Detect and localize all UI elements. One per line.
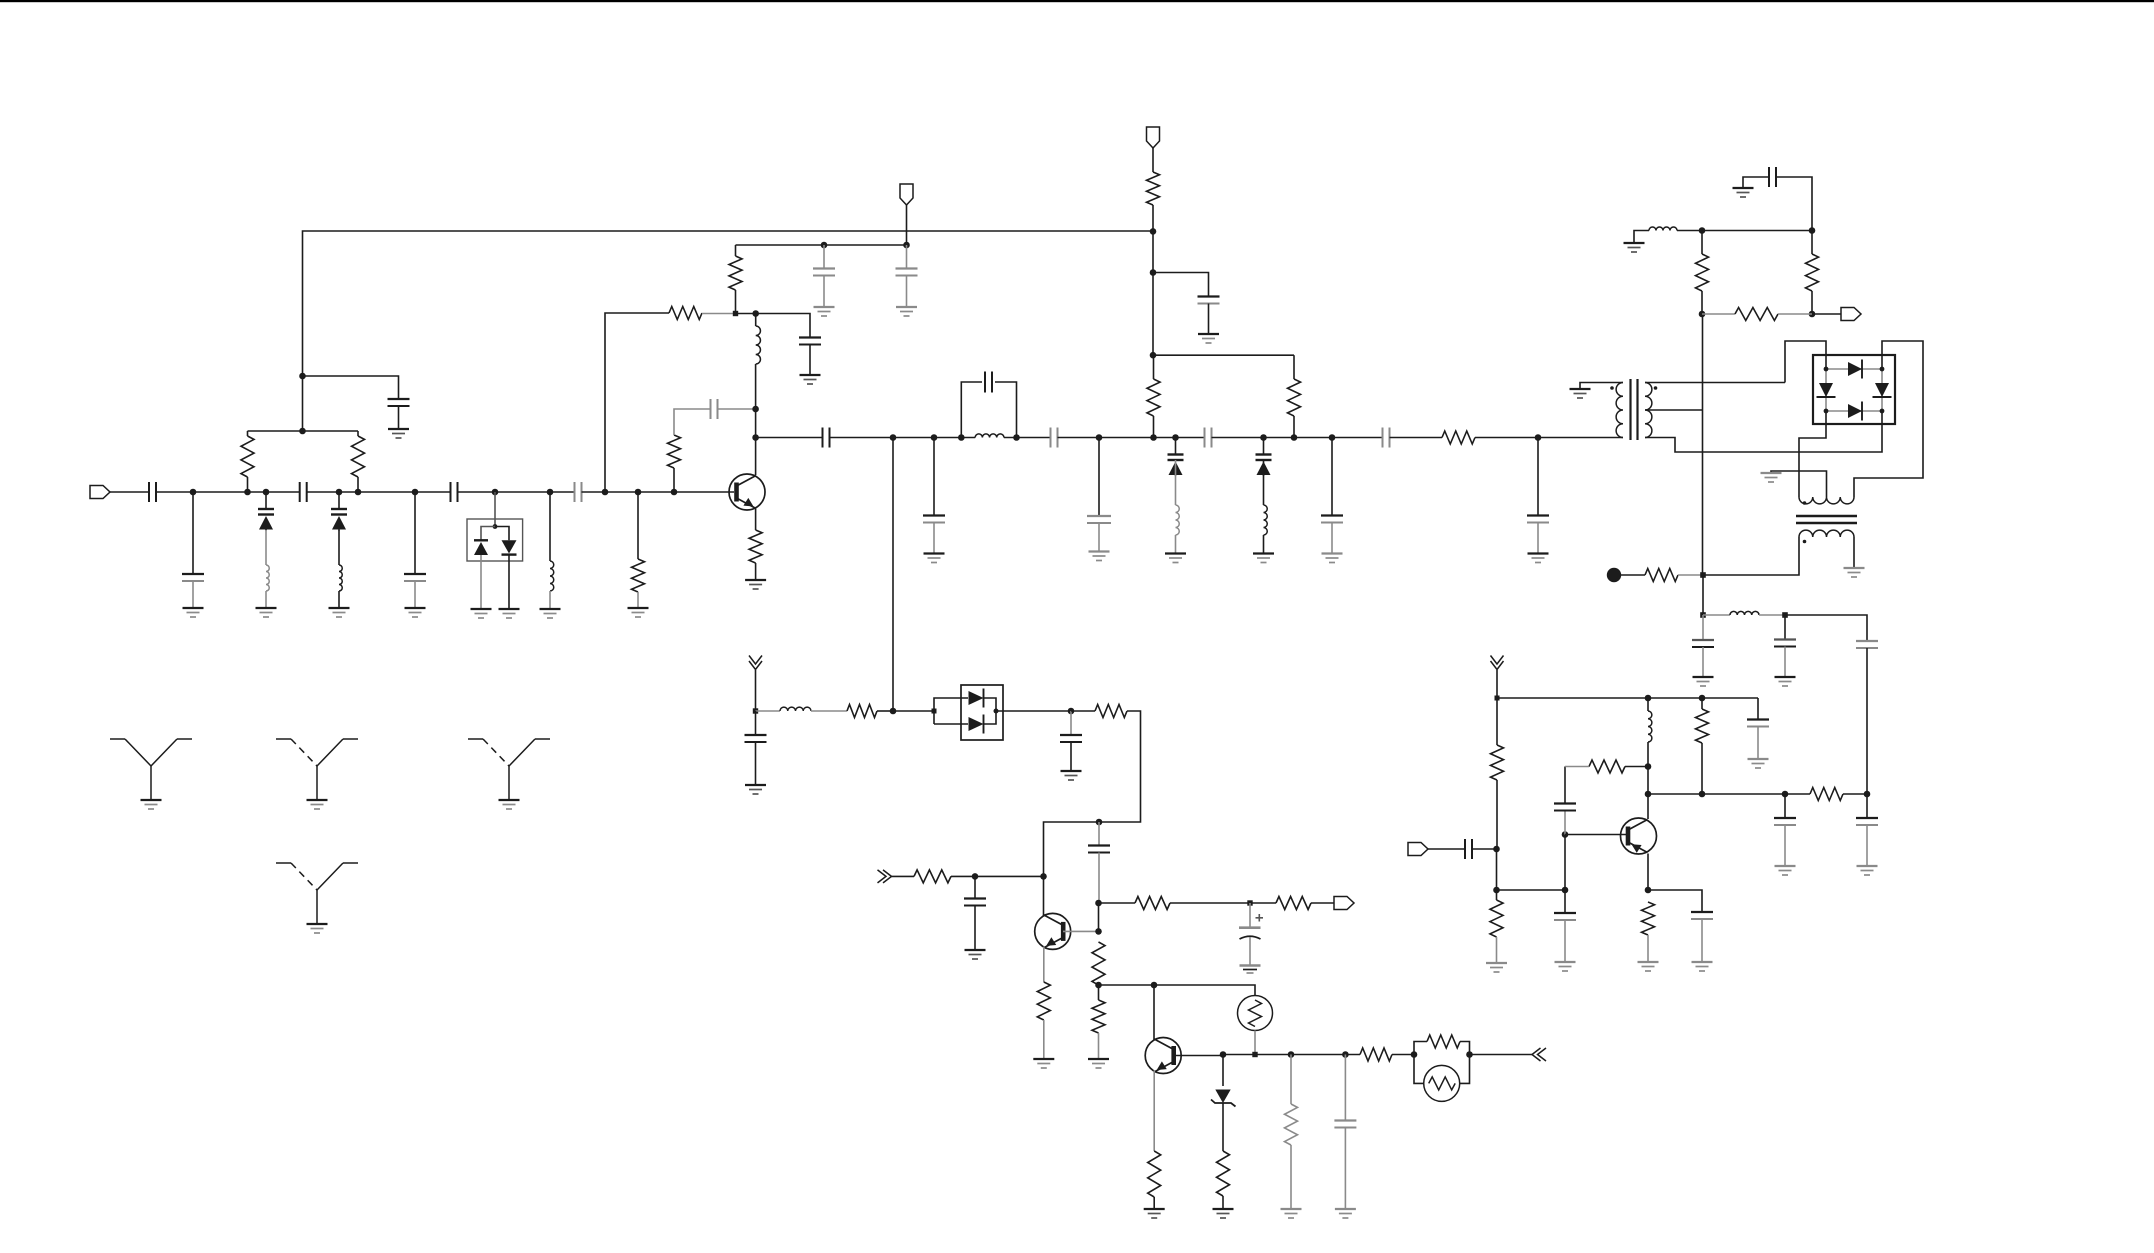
node C10: [1329, 434, 1336, 441]
wire box left branch: [481, 527, 495, 541]
wire C22 to ground: [755, 742, 757, 785]
node B8: [1150, 269, 1157, 276]
capacitor C9 shunt: [799, 338, 821, 345]
wire R21 to ground: [1222, 1196, 1224, 1209]
node C2: [931, 434, 938, 441]
wire J2 to L11: [1647, 698, 1649, 711]
ground at C28: [1733, 188, 1754, 197]
node J1: [1495, 696, 1500, 701]
wire R17 to port: [1311, 902, 1334, 904]
inductor L11: [1648, 711, 1652, 742]
wire to offpage: [1470, 1054, 1533, 1056]
wire bridge left arm: [1825, 369, 1827, 411]
node D6 cap tap: [1096, 819, 1103, 826]
wire R5 top to C8: [674, 409, 711, 435]
node C4 tank right: [1013, 434, 1020, 441]
bridge node TR: [1880, 367, 1885, 372]
wire R33 to J12: [1843, 793, 1867, 795]
bridge diode D10: [1817, 383, 1836, 397]
wire C25 to ground: [974, 906, 976, 951]
wire R14 to Q2 collector node: [951, 875, 1044, 877]
ground at T2 sec: [1844, 568, 1865, 577]
ground at C10: [814, 307, 835, 316]
resistor R17: [1276, 897, 1311, 910]
wire B5 to C10: [823, 245, 825, 269]
wire feedback vertical: [605, 313, 669, 492]
node inside diode box: [493, 524, 498, 529]
wire H3 right: [1785, 615, 1867, 641]
node D4 box output: [994, 709, 999, 714]
wire box right branch: [495, 527, 509, 541]
ground at D4: [499, 609, 520, 618]
node F4: [1288, 1051, 1295, 1058]
wire R3 to node B1: [702, 313, 736, 315]
wire bus to T1: [1538, 437, 1623, 439]
wire B8 to C12: [1153, 273, 1209, 297]
capacitor C5 shunt: [404, 574, 426, 581]
wire C8 to collector node: [718, 408, 756, 410]
wire bias rail y355: [1153, 354, 1294, 356]
wire box output: [996, 710, 1071, 712]
node J8 Q4 collector top: [1645, 763, 1652, 770]
resistor R27: [1735, 308, 1778, 321]
wire J5 to R30: [1496, 890, 1498, 900]
node J6: [1562, 887, 1569, 894]
node H3: [1782, 612, 1788, 618]
varactor diode D6: [1256, 438, 1272, 477]
offpage connector video in: [1491, 656, 1504, 670]
ground at C37: [1857, 866, 1878, 875]
node A3 on bias rail: [299, 428, 306, 435]
wire C21 to ground: [1537, 523, 1539, 554]
wire E5 to C26: [1249, 903, 1251, 928]
input port P1: [90, 486, 110, 499]
ground at C5: [405, 608, 426, 617]
node B2 collector-C8: [752, 406, 759, 413]
wire Q4 emitter: [1647, 854, 1649, 891]
capacitor C6 series: [451, 482, 458, 502]
ground at L2: [329, 608, 350, 617]
bridge diode D11: [1873, 383, 1892, 397]
wire C30 to ground: [1784, 647, 1786, 678]
wire R8 to AGC node: [1152, 205, 1154, 231]
wire bridge TR out: [1854, 341, 1923, 497]
wire rail G1-G2: [1702, 230, 1812, 232]
resistor R31: [1589, 760, 1625, 773]
wire AGC line vertical and top: [303, 231, 1154, 376]
AGC output port P4: [1334, 897, 1354, 910]
wire T1 primary top lead: [1580, 383, 1623, 390]
wire tank right: [995, 382, 1017, 438]
wire L9 left lead: [1634, 231, 1649, 244]
resistor R5: [668, 435, 681, 468]
resistor R10: [1288, 379, 1301, 416]
capacitor C21 shunt: [1527, 516, 1549, 523]
wire C28 left lead: [1743, 177, 1769, 188]
ground at C11: [896, 307, 917, 316]
offpage connector comp out: [1532, 1048, 1546, 1061]
varactor diode D2: [331, 492, 347, 531]
node J3: [1699, 695, 1706, 702]
resistor R1: [241, 436, 254, 477]
capacitor C35 bypass: [1554, 804, 1576, 811]
capacitor C19 shunt: [1321, 516, 1343, 523]
wire R20 to ground: [1153, 1197, 1155, 1209]
wire chev stem: [1496, 670, 1498, 698]
node A11 feedback join: [602, 489, 609, 496]
Y symbol 1 ground: [141, 800, 162, 809]
node E2 Q2 collector: [1040, 873, 1047, 880]
wire Q4 base lead: [1565, 834, 1626, 836]
wire H2 to L10: [1703, 614, 1730, 616]
ground at L7: [1253, 554, 1274, 563]
node A10 inductor L3: [547, 489, 554, 496]
node G2: [1809, 227, 1816, 234]
wire R31 left lead: [1565, 766, 1589, 768]
wire R7 lower stub: [735, 290, 737, 314]
T2 polarity dots: [1803, 501, 1807, 543]
ground at L6: [1165, 554, 1186, 563]
wire D1 to L1: [265, 530, 267, 565]
ground at R20: [1144, 1209, 1165, 1218]
wire R6 to ground: [755, 563, 757, 580]
wire T2 bottom left lead: [1703, 537, 1799, 575]
wire C9 to ground: [809, 345, 811, 376]
wire zener to R21: [1222, 1103, 1224, 1151]
wire R4 to ground: [637, 592, 639, 608]
node C7 varactor D5: [1172, 434, 1179, 441]
wire J11 to C36: [1784, 794, 1786, 818]
bridge diode D12: [1848, 402, 1862, 421]
capacitor C15 tank: [985, 372, 992, 393]
wire A12 to R4: [637, 492, 639, 559]
test point TP1: [1607, 568, 1621, 582]
wire C35 to J7: [1564, 812, 1566, 835]
wire bus seg1: [756, 437, 823, 439]
ground at C22: [745, 785, 766, 794]
wire bus seg2: [830, 437, 976, 439]
node C9 R10 bottom: [1291, 434, 1298, 441]
capacitor C30 shunt: [1774, 640, 1796, 647]
capacitor C38 shunt: [1691, 912, 1713, 919]
bridge node BL: [1824, 409, 1829, 414]
node B7 AGC rail end: [1150, 228, 1157, 235]
node J7 Q4 base: [1562, 831, 1569, 838]
wire C29 to ground: [1702, 647, 1704, 677]
ground at R19: [1088, 1059, 1109, 1068]
wire bracket lower arm: [934, 723, 968, 725]
wire R30 to ground: [1496, 937, 1498, 963]
node A4: [299, 373, 306, 380]
wire L11 to J8: [1647, 742, 1649, 767]
resistor R6 emitter: [749, 530, 762, 563]
wire D5 to L6: [1175, 460, 1177, 505]
resistor R12: [847, 705, 877, 718]
wire bridge bottom arm: [1826, 410, 1882, 412]
wire C11 down: [1537, 438, 1539, 516]
wire R7 stubs: [735, 245, 737, 256]
wire D5 to C23: [1070, 711, 1072, 735]
resistor R21: [1217, 1151, 1230, 1196]
video port P6: [1408, 843, 1428, 856]
wire R9 top stub: [1153, 355, 1155, 379]
wire B6 to C11: [906, 245, 908, 269]
varactor diode D1: [258, 492, 274, 531]
inductor L5 tank: [975, 434, 1004, 438]
capacitor C1 series: [149, 482, 156, 502]
ground at R6: [745, 580, 766, 589]
wire bridge BL out: [1799, 411, 1826, 497]
wire TP1 to R28: [1621, 574, 1645, 576]
resistor R25: [1696, 254, 1709, 291]
ground at T2 tap: [1761, 473, 1782, 482]
wire J1 down: [1496, 698, 1498, 745]
transformer T1 core: [1631, 379, 1638, 440]
capacitor C33 series: [1465, 839, 1472, 859]
bridge node TL: [1824, 367, 1829, 372]
wire T2 bottom right lead: [1853, 537, 1855, 568]
node C6: [1150, 434, 1157, 441]
resistor R24 combo: [1427, 1035, 1460, 1048]
node D3 box input: [932, 709, 937, 714]
inductor L2: [339, 565, 342, 591]
wire L8 to R12: [811, 710, 847, 712]
wire RT1 to bus: [1254, 1031, 1256, 1055]
wire R27 to G4: [1778, 313, 1812, 315]
capacitor C34 shunt: [1554, 913, 1576, 920]
zener diode DZ1: [1211, 1090, 1236, 1107]
ground at C17: [1089, 552, 1110, 561]
wire box bracket: [934, 698, 968, 724]
node A8: [412, 489, 419, 496]
mixer diode box outline: [961, 685, 1003, 740]
inductor L3: [550, 561, 554, 591]
wire J8 down: [1647, 767, 1649, 795]
ground at C27: [1335, 1209, 1356, 1218]
inductor L6: [1176, 505, 1180, 535]
wire R13 corner down: [1044, 711, 1141, 876]
wire LO to L8: [756, 710, 781, 712]
resistor R22: [1285, 1104, 1298, 1145]
node B6 port feed: [903, 242, 910, 249]
wire C27 to ground: [1344, 1128, 1346, 1210]
node B9 varactor bias rail: [1150, 352, 1157, 359]
thermistor RT1: [1238, 996, 1273, 1031]
wire R10 top stub: [1293, 355, 1295, 379]
bridge node BR: [1880, 409, 1885, 414]
wire comp bus: [1223, 1054, 1360, 1056]
resistor R28: [1645, 569, 1678, 582]
node F3 thermistor bottom: [1252, 1052, 1257, 1057]
wire E4 to R16: [1099, 902, 1136, 904]
wire mixer drop: [892, 438, 894, 712]
node J4: [1493, 846, 1500, 853]
ground at T1 primary: [1570, 389, 1591, 398]
resistor R29: [1491, 745, 1504, 780]
resistor R34 Q4 emitter: [1642, 902, 1655, 935]
wire R34 to ground: [1647, 935, 1649, 962]
transistor Q2: [1035, 913, 1071, 949]
wire D6 to L7: [1263, 460, 1265, 505]
wire R10 bottom stub: [1293, 416, 1295, 438]
wire J12 to C37: [1866, 794, 1868, 818]
resistor R14: [914, 870, 951, 883]
node A7 resistor R2 bottom: [355, 489, 362, 496]
wire bus seg2b: [1004, 437, 1051, 439]
wire R32 to J10: [1701, 743, 1703, 794]
capacitor C12 shunt: [1198, 297, 1220, 304]
capacitor C8 series: [711, 399, 718, 419]
wire D4 to ground: [508, 555, 510, 609]
wire C24 down: [1098, 853, 1100, 904]
node F1 Q3 collector: [1151, 982, 1158, 989]
capacitor C3 shunt: [388, 399, 410, 406]
Y symbol 1: [110, 739, 192, 800]
resistor R9: [1147, 379, 1160, 416]
wire C10 to ground: [823, 276, 825, 308]
wire D6 to C24: [1098, 822, 1100, 846]
wire C3 to ground: [398, 406, 400, 429]
wire VCC rail y245: [736, 244, 907, 246]
varactor diode D4 down: [502, 540, 517, 554]
wire L7 to ground: [1263, 535, 1265, 554]
ground at C12: [1198, 334, 1219, 343]
wire H3 to C30: [1784, 615, 1786, 640]
ground at R30: [1486, 963, 1507, 972]
ground at C29: [1693, 677, 1714, 686]
wire R2 top stub: [357, 431, 359, 436]
resistor R7 collector bias: [729, 256, 742, 290]
wire L3 to ground: [549, 591, 551, 609]
wire D2 to L2: [338, 530, 340, 565]
inductor L1: [266, 565, 269, 591]
wire R12 to C1node: [877, 710, 893, 712]
wire J13 to C38: [1648, 890, 1702, 912]
wire port P2 drop: [906, 205, 908, 245]
capacitor C24 shunt: [1088, 846, 1110, 853]
wire C2 down: [933, 438, 935, 516]
wire C12 to ground: [1208, 304, 1210, 335]
inductor L10: [1730, 611, 1759, 615]
varactor diode D5: [1168, 438, 1184, 477]
wire Q3 emitter: [1153, 1071, 1155, 1152]
wire A10 to L3: [549, 492, 551, 561]
T1 polarity dots: [1610, 386, 1657, 390]
wire C31 down to video bus: [1866, 648, 1868, 794]
resistor R32: [1696, 709, 1709, 743]
node J9: [1645, 791, 1652, 798]
wire J3 to R32: [1701, 698, 1703, 709]
capacitor C14 shunt: [923, 516, 945, 523]
wire P6 to C33: [1428, 848, 1465, 850]
wire Q2 emitter: [1043, 947, 1045, 983]
inductor T1 secondary: [1645, 383, 1652, 438]
diode pair box outline: [467, 519, 523, 561]
wire combo bottom right: [1460, 1055, 1470, 1084]
wire Q2 base: [1063, 930, 1099, 932]
wire D1 down to C22: [755, 711, 757, 735]
node E6: [1095, 982, 1102, 989]
capacitor C18 series: [1205, 428, 1212, 448]
resistor R26: [1806, 254, 1819, 291]
wire P3 to R8: [1152, 148, 1154, 172]
node A9 diode pair: [492, 489, 499, 496]
inductor L4 collector choke: [756, 326, 761, 364]
node J10: [1699, 791, 1706, 798]
transistor Q1: [729, 474, 765, 510]
wire D5 to R13: [1071, 710, 1095, 712]
wire C37 to ground: [1866, 826, 1868, 867]
node D5 IF node: [1068, 708, 1075, 715]
wire R19 stub: [1098, 985, 1100, 1000]
node E1: [972, 873, 979, 880]
capacitor C17 shunt: [1087, 516, 1111, 523]
node G1: [1699, 227, 1706, 234]
wire J4 down: [1496, 849, 1498, 890]
transformer T2 core: [1796, 516, 1857, 523]
node J11: [1782, 791, 1789, 798]
wire E1 to C25: [974, 876, 976, 898]
wire C6 to C7: [458, 491, 575, 493]
ground at C32: [1748, 759, 1769, 768]
wire L2 to ground: [338, 591, 340, 608]
power port P3: [1147, 127, 1160, 148]
wire L9 to node G1: [1677, 230, 1702, 232]
wire tank left up: [961, 382, 982, 438]
node J2: [1645, 695, 1652, 702]
ground at C23: [1061, 771, 1082, 780]
wire C19 to ground: [1331, 523, 1333, 554]
resistor R8: [1147, 172, 1160, 205]
resistor R33: [1810, 788, 1843, 801]
resistor R2: [352, 436, 365, 477]
ground at C25: [965, 950, 986, 959]
resistor R23: [1360, 1048, 1392, 1061]
wire H2 to C29: [1702, 615, 1704, 640]
power port P2: [900, 184, 913, 205]
wire C38 to ground: [1701, 919, 1703, 962]
ground at D3: [471, 609, 492, 618]
node J5: [1493, 887, 1500, 894]
wire T1 sec top: [1645, 382, 1785, 384]
polarized capacitor C26: [1239, 914, 1263, 939]
ground at C34: [1555, 962, 1576, 971]
wire R1 top stub: [247, 431, 249, 436]
ground at R21: [1213, 1209, 1234, 1218]
wire B1 to L4 node: [736, 313, 756, 315]
wire T1 sec bottom: [1645, 411, 1882, 452]
wire C26 to ground: [1249, 937, 1251, 966]
wire A4 to C3: [303, 376, 399, 399]
capacitor C10 shunt: [813, 269, 835, 276]
Y symbol 4 ground: [307, 924, 328, 933]
capacitor C27 shunt: [1334, 1121, 1356, 1128]
capacitor C16 series: [1051, 428, 1058, 448]
wire to diode box: [893, 710, 934, 712]
node A2 resistor R1 bottom: [244, 489, 251, 496]
wire bridge top arm: [1826, 368, 1882, 370]
wire rail y794: [1648, 793, 1785, 795]
node B3 collector bus tap: [752, 434, 759, 441]
wire R26 stubs: [1811, 231, 1813, 255]
capacitor C31 shunt: [1856, 641, 1878, 648]
offpage connector LO in: [749, 656, 762, 670]
node C8 varactor D6: [1260, 434, 1267, 441]
wire Q4 collector: [1647, 794, 1649, 819]
node F5: [1342, 1051, 1349, 1058]
transistor Q4: [1621, 818, 1657, 854]
ground at C21: [1528, 554, 1549, 563]
